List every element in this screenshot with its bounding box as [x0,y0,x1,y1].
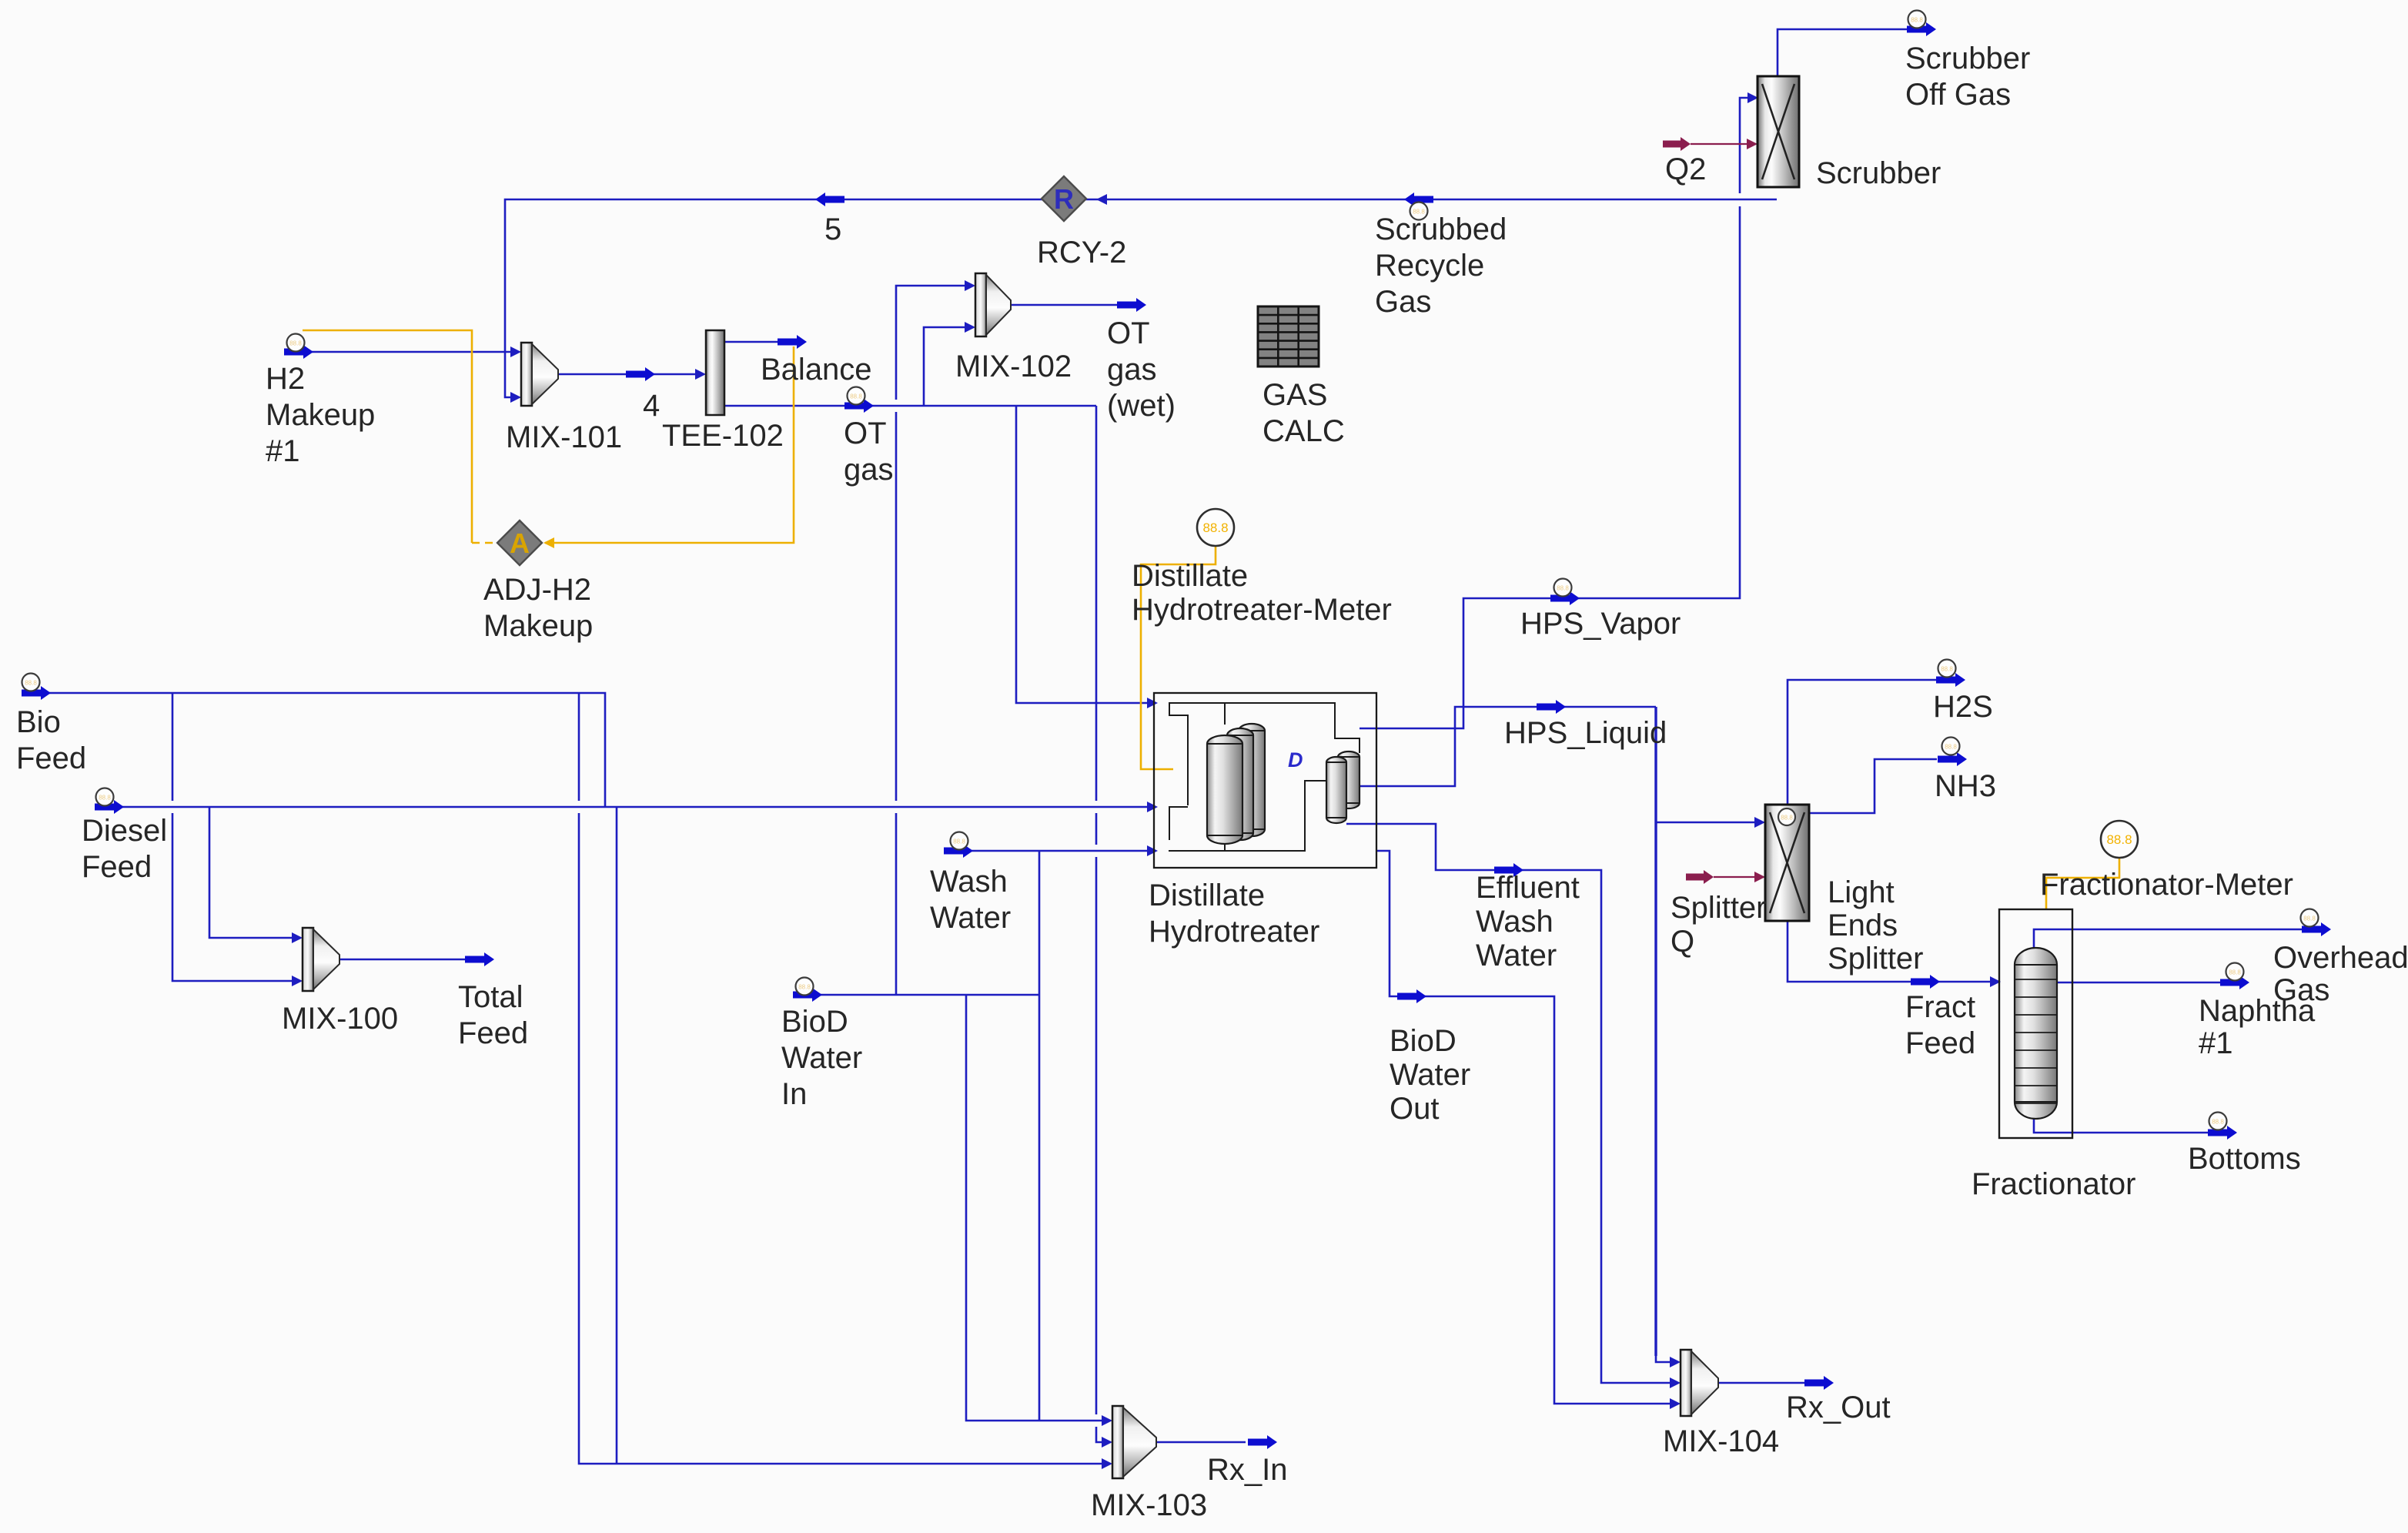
svg-text:88.8: 88.8 [1911,17,1923,24]
svg-text:88.8: 88.8 [2106,832,2132,847]
node Naphtha stream circle [2226,963,2244,981]
wire BioD water branch up to MIX-102 upper inlet [895,813,898,995]
energy stream Q2 into Scrubber [1663,137,1691,151]
wire stream Balance from TEE-102 [724,341,778,343]
svg-text:88.8: 88.8 [25,680,37,687]
svg-text:MIX-100: MIX-100 [282,1002,398,1036]
svg-text:MIX-101: MIX-101 [506,420,622,454]
column Scrubber [1758,76,1799,187]
node splitter top stream circle [1778,808,1795,825]
energy stream Splitter Q into Light Ends Splitter [1686,870,1714,884]
adjust block ADJ-H2 Makeup [497,520,542,565]
meter Distillate Hydrotreater-Meter [1197,509,1234,546]
wire stream H2S from Light Ends Splitter [1788,680,1936,805]
wire stream Overhead Gas from Fractionator [2034,929,2302,948]
svg-text:D: D [1288,748,1303,772]
internal piping Distillate Hydrotreater [1169,703,1360,753]
svg-text:88.8: 88.8 [1945,744,1957,751]
svg-text:H2S: H2S [1933,690,1993,724]
svg-text:R: R [1054,183,1074,215]
svg-text:88.8: 88.8 [2229,969,2241,976]
column Fractionator with box [1999,909,2072,1138]
wire feed branch down to MIX-103 [616,807,618,1464]
tee TEE-102 [706,330,724,415]
wire stream 4 from MIX-101 to TEE-102 [558,373,696,376]
wire meter link Distillate Hydrotreater-Meter [1141,546,1216,769]
wire meter link Fractionator-Meter [2046,859,2119,910]
svg-text:88.8: 88.8 [99,795,111,802]
node OT gas stream circle [848,387,865,405]
svg-text:RCY-2: RCY-2 [1037,236,1126,269]
wire OT gas branch down to MIX-103 middle inlet [1095,406,1098,801]
mixer MIX-102 [975,273,986,336]
svg-text:MIX-102: MIX-102 [955,350,1072,383]
svg-text:88.8: 88.8 [953,838,965,845]
svg-text:TEE-102: TEE-102 [662,419,784,453]
svg-text:88.8: 88.8 [798,984,811,991]
meter Fractionator-Meter [2101,821,2138,858]
wire HPS_Liquid branch into Light Ends Splitter [1656,822,1755,824]
svg-text:4: 4 [643,389,660,423]
reactor cylinders inside Distillate Hydrotreater [1239,724,1265,836]
wire stream Naphtha #1 from Fractionator [2057,982,2220,984]
wire stream Bottoms from Fractionator [2034,1119,2208,1133]
svg-text:88.8: 88.8 [850,393,862,400]
svg-text:88.8: 88.8 [1941,666,1953,673]
wire stream Rx_Out from MIX-104 [1718,1382,1804,1384]
mixer MIX-101 [521,343,532,406]
svg-text:Fractionator-Meter: Fractionator-Meter [2040,868,2293,902]
wire recycle stream 5 from Scrubber to MIX-101 [505,199,1777,387]
column Light Ends Splitter [1765,805,1809,921]
svg-text:Fractionator: Fractionator [1972,1167,2135,1201]
node BioD Water In stream circle [796,978,814,996]
recycle block RCY-2 [1042,176,1086,221]
svg-text:88.8: 88.8 [2303,915,2316,922]
wire Diesel Feed branch to MIX-100 upper inlet [209,807,293,938]
svg-text:88.8: 88.8 [1557,585,1569,592]
svg-text:MIX-104: MIX-104 [1663,1424,1779,1458]
wire stream Rx_In from MIX-103 [1156,1441,1246,1444]
wire stream Diesel Feed into Distillate Hydrotreater [95,806,1148,808]
wire HPS_Liquid leg into MIX-104 top inlet [1656,1356,1671,1362]
wire stream HPS_Liquid from Distillate Hydrotreater [1346,707,1656,786]
svg-text:Rx_In: Rx_In [1207,1453,1288,1487]
wire adjust link H2 Makeup to ADJ-H2 [303,330,472,543]
node Wash Water stream circle [951,832,968,850]
node Diesel Feed stream circle [96,788,114,806]
svg-text:NH3: NH3 [1935,769,1996,803]
wire stream OT gas (wet) from MIX-102 [1011,304,1117,306]
wire stream Total Feed from MIX-100 [339,959,465,961]
node Bio Feed stream circle [22,674,40,691]
node Bottoms stream circle [2209,1113,2227,1130]
wire stream Effluent Wash Water to MIX-104 [1346,824,1671,1383]
node NH3 stream circle [1942,738,1960,755]
svg-text:88.8: 88.8 [1781,815,1793,822]
separator cylinders inside Distillate Hydrotreater [1338,751,1360,808]
wire Bio Feed branch down to MIX-103 bottom inlet [578,693,580,801]
node Scrubbed Recycle Gas stream circle [1410,203,1428,220]
svg-text:88.8: 88.8 [289,340,302,347]
mixer MIX-103 [1112,1406,1123,1478]
mixer MIX-100 [303,928,313,991]
node Overhead Gas stream circle [2301,909,2319,927]
wire stream HPS_Vapor from Distillate Hydrotreater to Scrubber [1360,206,1740,728]
wire stream BioD Water In [793,994,1039,996]
wire stream H2 Makeup #1 into MIX-101 [284,351,511,353]
wire BioD Water In branch down to MIX-103 top inlet [966,995,1102,1421]
svg-text:MIX-103: MIX-103 [1091,1488,1207,1522]
wire stream Wash Water into Distillate Hydrotreater [944,850,1148,852]
wire stream Fract Feed from Light Ends Splitter to Fractionator [1788,921,1991,982]
svg-text:88.8: 88.8 [1202,520,1228,535]
wire stream BioD Water Out to MIX-104 [1376,851,1671,1404]
wire OT gas branch down to Distillate Hydrotreater top inlet [1016,406,1148,703]
svg-text:Balance: Balance [761,353,872,387]
node Scrubber Off Gas stream circle [1908,11,1926,28]
wire stream Scrubber Off Gas [1778,29,1907,76]
wire Bio Feed branch to MIX-100 lower inlet [172,693,174,801]
svg-text:Scrubber: Scrubber [1816,156,1941,190]
spreadsheet GAS CALC icon [1258,306,1319,367]
node HPS_Vapor stream circle [1554,579,1572,597]
wire stream OT gas from TEE-102 [724,405,1096,407]
svg-text:5: 5 [824,213,841,246]
svg-text:88.8: 88.8 [2212,1119,2224,1126]
wire Wash Water branch down to MIX-103 header [1038,851,1041,1421]
wire adjust link Balance to ADJ-H2 [545,346,794,543]
svg-text:HPS_Liquid: HPS_Liquid [1504,716,1667,750]
wire stream NH3 from Light Ends Splitter [1809,759,1937,813]
wire OT gas branch up to MIX-102 lower inlet [924,327,965,406]
svg-text:Bottoms: Bottoms [2188,1142,2301,1176]
svg-text:Rx_Out: Rx_Out [1786,1391,1891,1424]
svg-text:HPS_Vapor: HPS_Vapor [1520,607,1681,641]
svg-text:A: A [510,527,530,559]
wire stream Bio Feed [22,693,605,807]
node H2 Makeup stream circle [287,334,305,352]
mixer MIX-104 [1681,1350,1691,1416]
unit Distillate Hydrotreater box [1154,693,1376,868]
node H2S stream circle [1938,660,1956,678]
svg-text:Q2: Q2 [1665,152,1706,186]
